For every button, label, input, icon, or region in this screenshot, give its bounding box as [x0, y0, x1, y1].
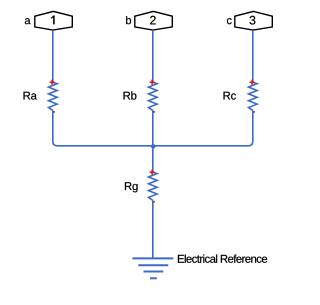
port c hexagon P3 — [235, 11, 272, 30]
junction node dot — [151, 144, 156, 149]
label Electrical Reference — [178, 255, 267, 263]
wire Rb through bus to Rg — [152, 110, 154, 172]
resistor Rg zigzag — [149, 172, 158, 200]
label Rg — [125, 182, 138, 192]
wire bus from Ra to Rc — [53, 110, 253, 145]
wire port a to Ra — [52, 30, 54, 82]
wire port c to Rc — [252, 30, 254, 82]
port a hexagon P1 — [35, 11, 73, 30]
label Rb — [124, 91, 137, 99]
wire Rg to ground — [152, 200, 154, 258]
resistor Rc minus dot — [253, 111, 255, 113]
node label c — [227, 18, 232, 24]
resistor Rc plus terminal — [250, 80, 255, 85]
resistor Rb plus terminal — [150, 80, 155, 85]
ground bar 2 — [138, 264, 168, 266]
port c pin number 3 — [250, 16, 256, 25]
ground bar 3 — [144, 271, 164, 273]
node label b — [126, 16, 131, 24]
wire port b to Rb — [152, 30, 154, 82]
ground electrical reference bar 1 — [132, 257, 173, 259]
label Rc — [224, 92, 236, 100]
resistor Rc zigzag — [249, 82, 258, 110]
ground bar 4 — [150, 277, 157, 279]
resistor Rb minus dot — [153, 111, 155, 113]
port a pin number 1 — [51, 16, 54, 25]
port b pin number 2 — [150, 16, 156, 25]
resistor Ra zigzag — [49, 82, 58, 110]
node label a — [25, 18, 31, 24]
resistor Rg minus dot — [153, 201, 155, 203]
resistor Rg plus terminal — [150, 170, 155, 175]
resistor Ra plus terminal — [50, 80, 55, 85]
port b hexagon P2 — [135, 11, 173, 30]
resistor Ra minus dot — [53, 111, 55, 113]
label Ra — [24, 92, 37, 100]
resistor Rb zigzag — [149, 82, 158, 110]
wire node mark — [152, 240, 154, 242]
